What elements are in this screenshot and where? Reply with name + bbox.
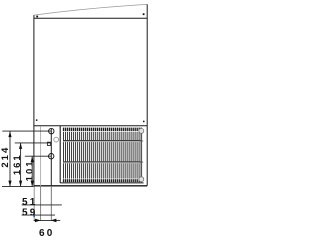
screw mid-right bbox=[143, 121, 145, 123]
grille top teeth row bbox=[63, 128, 142, 132]
hole A top bbox=[49, 128, 54, 133]
lower panel seam (grille top) bbox=[34, 125, 147, 127]
extension line for dim 161 bbox=[15, 142, 51, 144]
label 60 bbox=[39, 228, 55, 239]
hole D small bbox=[54, 137, 59, 142]
grille pivot bar right bbox=[140, 131, 142, 179]
extension line for dim 101 bbox=[25, 155, 51, 157]
cabinet right edge bbox=[146, 4, 148, 185]
blue aa fringe under 59 bbox=[33, 213, 35, 217]
dimension line 101 bbox=[31, 156, 34, 186]
inner partition line bbox=[40, 126, 42, 221]
cabinet top edge (sloped lid line) bbox=[34, 4, 147, 15]
screw top-right bbox=[143, 13, 145, 15]
svg-text:214: 214 bbox=[0, 146, 11, 168]
cabinet bottom edge bbox=[34, 185, 147, 187]
square slot B bbox=[47, 142, 50, 145]
top panel seam bbox=[34, 17, 147, 19]
dimension line 60 bbox=[34, 219, 61, 223]
label 59 bbox=[22, 207, 38, 218]
screw mid-left bbox=[36, 119, 38, 121]
extension line for dim 214 bbox=[2, 130, 51, 132]
grille louvre bars bbox=[63, 132, 142, 179]
cabinet left edge bbox=[33, 15, 35, 186]
svg-text:51: 51 bbox=[22, 197, 38, 208]
grille frame bottom bbox=[60, 182, 143, 184]
leader line under 51 bbox=[22, 204, 62, 206]
label 101 bbox=[25, 159, 36, 181]
screw top-left bbox=[36, 16, 38, 18]
svg-text:59: 59 bbox=[22, 207, 38, 218]
grille lower rail bbox=[63, 162, 141, 163]
leader line under 59 bbox=[22, 214, 55, 216]
pivot circle bottom bbox=[139, 177, 144, 182]
grille bottom teeth row bbox=[63, 179, 142, 182]
grille rail stubs right bbox=[141, 141, 144, 162]
dimension line 161 bbox=[19, 143, 22, 187]
label 51 bbox=[22, 197, 38, 208]
grille upper rail bbox=[63, 141, 141, 142]
baseline extension at cabinet bottom bbox=[2, 185, 34, 187]
left edge extension below cabinet bbox=[33, 187, 35, 221]
mounting rail (hole column) bbox=[50, 129, 52, 221]
pivot circle top bbox=[139, 128, 144, 133]
dimension line 214 bbox=[8, 131, 11, 187]
hole C bottom bbox=[49, 154, 54, 159]
svg-text:161: 161 bbox=[12, 153, 23, 175]
grille frame left bbox=[59, 126, 61, 183]
label 161 bbox=[12, 153, 23, 175]
svg-text:101: 101 bbox=[25, 159, 36, 181]
label 214 bbox=[0, 146, 11, 168]
svg-text:60: 60 bbox=[39, 228, 55, 239]
